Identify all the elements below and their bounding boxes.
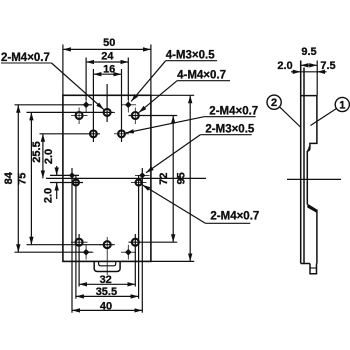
svg-text:2: 2 — [271, 97, 277, 109]
dimension 35.5 — [76, 295, 139, 297]
wire extension 25.5 top — [40, 133, 101, 135]
side view lower hook lip — [307, 204, 317, 214]
text 2.0 lower — [43, 188, 55, 203]
wire extension 35.5 right — [138, 175, 140, 299]
svg-text:40: 40 — [100, 300, 112, 312]
wire extension 72 bottom — [129, 241, 178, 243]
text 95 — [175, 172, 187, 184]
wire extension 16 right — [121, 69, 123, 142]
text 24 — [101, 50, 114, 62]
wire extension 2.0 upper row — [50, 174, 79, 176]
leader balloon 1 — [311, 109, 337, 126]
wire extension 2.0 lower row — [50, 182, 83, 184]
label 4-M3x0.5 — [166, 50, 217, 62]
side view thin plate left edge — [300, 61, 302, 264]
svg-text:32: 32 — [100, 274, 112, 286]
svg-text:9.5: 9.5 — [301, 46, 316, 58]
cross marks top right hole — [134, 108, 136, 125]
hole M4 bottom left — [76, 239, 83, 246]
cross marks top center hole — [99, 111, 115, 113]
svg-text:2-M4×0.7: 2-M4×0.7 — [209, 106, 258, 118]
hole M4 bottom center — [104, 241, 111, 248]
text 75 — [17, 173, 29, 185]
dimension 75 — [30, 112, 32, 244]
svg-text:24: 24 — [101, 50, 114, 62]
wire extension 84 top — [15, 104, 93, 106]
text 50 — [103, 37, 115, 49]
wire extension 75 bottom — [27, 244, 114, 246]
label 2-M3x0.5 right — [200, 124, 255, 136]
diamond hook right — [139, 172, 145, 178]
leader to mid right hole — [126, 117, 204, 133]
wire extension 24 left — [85, 58, 87, 101]
svg-text:75: 75 — [17, 173, 29, 185]
cross marks bottom holes — [71, 237, 115, 275]
cross marks top left hole — [71, 108, 88, 125]
svg-text:4-M3×0.5: 4-M3×0.5 — [166, 50, 216, 62]
dimension 50 — [63, 48, 151, 50]
cross marks diamonds top — [86, 98, 136, 113]
text 16 — [103, 63, 115, 75]
bottom tab inner lip — [99, 261, 116, 265]
wire extension 40 left — [71, 168, 73, 313]
leader balloon 2 — [280, 107, 301, 127]
leader to hook right diamond — [146, 135, 200, 173]
cross marks hook right — [131, 175, 150, 182]
text 40 — [100, 300, 112, 312]
wire extension 32 left — [78, 234, 80, 287]
wire extension 84 bottom — [15, 251, 93, 253]
side view bottom edge — [301, 263, 310, 265]
dimension 7.5 side — [301, 71, 327, 73]
balloon 2 — [267, 95, 281, 109]
wire extension 75 top — [27, 111, 114, 113]
center line horizontal — [46, 177, 206, 179]
wire extension 95 top — [151, 94, 194, 96]
label 4-M4x0.7 — [177, 70, 230, 82]
svg-text:2-M4×0.7: 2-M4×0.7 — [210, 210, 259, 222]
hole M4 top right — [132, 112, 139, 119]
bottom tab outer — [94, 261, 120, 271]
svg-text:35.5: 35.5 — [96, 286, 117, 298]
plate outline front view — [63, 95, 151, 261]
side view thin plate right edge — [303, 68, 305, 264]
side view hook inner edge — [306, 151, 308, 205]
dimension 72 — [172, 116, 174, 243]
side view block right edge upper — [307, 96, 317, 152]
svg-text:4-M4×0.7: 4-M4×0.7 — [177, 70, 226, 82]
dimension 95 — [189, 95, 191, 261]
wire extension 32 right — [134, 234, 136, 287]
text 35.5 — [96, 286, 117, 298]
wire extension 95 bottom — [151, 260, 194, 262]
diamond M3 top left — [83, 102, 90, 109]
dimension 2.0 upper — [56, 166, 58, 175]
svg-text:2.0: 2.0 — [43, 149, 55, 164]
label 2-M4x0.7 right upper — [204, 106, 258, 118]
leader to top right outer hole — [139, 81, 177, 113]
diamond M3 bottom left — [83, 249, 90, 256]
leader to hook right hole — [142, 185, 205, 223]
svg-text:72: 72 — [158, 173, 170, 185]
cross marks diamonds bottom — [79, 245, 136, 260]
hole hook right — [136, 180, 142, 186]
label 2-M4x0.7 right lower — [205, 210, 259, 223]
dimension 2.0 side — [291, 71, 301, 73]
wire extension 35.5 left — [75, 175, 77, 299]
text 25.5 — [31, 141, 43, 162]
side view top edge — [301, 95, 317, 97]
svg-text:7.5: 7.5 — [320, 60, 335, 72]
svg-text:1: 1 — [339, 100, 345, 112]
svg-text:84: 84 — [3, 171, 15, 184]
leader to top center hole — [52, 63, 104, 109]
svg-text:2.0: 2.0 — [277, 60, 292, 72]
dimension 25.5 — [42, 134, 44, 179]
svg-text:95: 95 — [175, 172, 187, 184]
cross marks mid right hole — [114, 133, 129, 135]
wire extension 50 right — [150, 45, 152, 96]
side view center line — [287, 178, 341, 180]
svg-text:25.5: 25.5 — [31, 141, 43, 162]
text 9.5 — [301, 46, 316, 58]
hole M3 mid left — [90, 130, 97, 137]
label 2-M4x0.7 top left — [1, 52, 52, 64]
text 2.0 side — [277, 60, 292, 72]
text 7.5 side — [320, 60, 335, 72]
svg-text:16: 16 — [103, 63, 115, 75]
wire extension 50 left — [62, 45, 64, 96]
text 72 — [158, 173, 170, 185]
svg-text:50: 50 — [103, 37, 115, 49]
wire extension 72 top — [129, 115, 178, 117]
wire extension 16 left — [92, 69, 94, 142]
dimension 24 — [86, 61, 128, 63]
dimension 32 — [79, 283, 135, 285]
text 2.0 upper — [43, 149, 55, 164]
leader to top right diamond — [131, 61, 166, 102]
diamond hook left — [69, 172, 75, 178]
text 84 — [3, 171, 15, 184]
hole hook left — [73, 180, 79, 186]
dimension 2.0 lower — [56, 183, 58, 199]
dimension 16 — [93, 73, 121, 75]
svg-text:2-M4×0.7: 2-M4×0.7 — [1, 52, 50, 64]
wire extension 9.5 left — [300, 61, 302, 67]
svg-text:2-M3×0.5: 2-M3×0.5 — [205, 124, 255, 136]
balloon 1 — [335, 97, 349, 111]
dimension 9.5 — [301, 64, 318, 66]
wire center vertical top — [106, 84, 108, 122]
svg-text:2.0: 2.0 — [43, 188, 55, 203]
hole M4 top left — [76, 112, 83, 119]
dimension 40 — [72, 309, 142, 311]
diamond M3 bottom right — [125, 249, 132, 256]
hole M3 mid right — [118, 130, 125, 137]
side view foot — [310, 264, 317, 274]
text 32 — [100, 274, 112, 286]
hole M4 bottom right — [132, 239, 139, 246]
hole M4 top center — [104, 109, 111, 116]
side view block right edge lower — [316, 210, 318, 264]
wire extension 9.5 right — [316, 61, 318, 96]
wire extension 40 right — [141, 168, 143, 313]
wire extension 24 right — [127, 58, 129, 101]
diamond M3 top right — [125, 102, 132, 109]
dimension 84 — [17, 105, 19, 252]
